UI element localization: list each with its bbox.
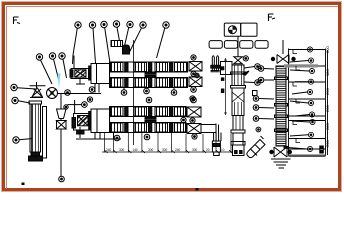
floor line 7 — [289, 138, 326, 140]
frame balloon 7 — [295, 112, 315, 117]
upper shaft row B coupling X-box — [189, 77, 202, 87]
balloon above coupling A — [191, 55, 196, 60]
small stand part left of middle bottom — [212, 133, 221, 156]
frame balloon 9 — [290, 132, 314, 137]
svg-text:20: 20 — [206, 148, 210, 152]
lower unit legs and base — [76, 127, 121, 139]
upper unit legs — [76, 79, 101, 94]
balloon under lower unit b — [144, 134, 150, 140]
main red-brown frame — [4, 4, 340, 190]
balloon bottom left — [59, 176, 65, 182]
legend rounded box 4 — [255, 41, 268, 49]
floor line 3 — [289, 81, 326, 83]
balloon under upper unit f — [171, 88, 177, 95]
middle column body upper — [231, 65, 246, 86]
balloon lower unit mid b — [190, 118, 195, 123]
svg-text:300: 300 — [148, 148, 154, 152]
balloon hatched column c — [253, 96, 274, 102]
top valve X — [234, 37, 249, 64]
balloon hatched column d — [253, 105, 274, 111]
bottom-left frame dot — [22, 183, 24, 185]
dimension extension lines below machine — [105, 133, 232, 153]
balloons right of middle column — [244, 64, 260, 70]
balloon 3 top row — [101, 21, 110, 63]
middle bottom part body — [231, 133, 245, 156]
upper center joint bars — [145, 73, 156, 78]
dark motor blob above machine — [123, 45, 130, 54]
middle column lower stem — [233, 116, 243, 131]
top bowtie valve on hatched column — [271, 40, 295, 64]
frame balloon 6 — [290, 100, 314, 105]
trestle mast — [30, 82, 46, 98]
svg-text:240: 240 — [106, 148, 112, 152]
diagonal roller bottom middle — [247, 136, 265, 158]
upper gearbox — [70, 56, 89, 79]
frame outline — [289, 49, 328, 157]
inner bevel line top-left — [7, 7, 339, 190]
balloon lower unit top — [190, 96, 195, 101]
svg-text:200: 200 — [325, 88, 330, 95]
svg-text:300: 300 — [162, 148, 168, 152]
small box upper-left of balloons — [253, 91, 258, 96]
section arrow symbol top-right — [269, 14, 276, 21]
cyan guide strip — [58, 74, 61, 90]
lower shaft row A coupling X-box — [187, 107, 201, 117]
dimension line — [102, 150, 232, 153]
middle column dim line — [224, 58, 227, 115]
lower shaft row A rollers — [110, 107, 187, 117]
svg-text:240: 240 — [175, 148, 181, 152]
funnel and valve line — [57, 94, 67, 177]
dimension texts — [106, 148, 225, 152]
small element right of bottom balloon — [320, 146, 324, 153]
balloon left a — [36, 54, 52, 84]
hatched column body — [275, 66, 288, 146]
balloon 4 top row — [113, 21, 119, 41]
balloon above roller — [256, 127, 261, 132]
floor line 8 — [289, 148, 326, 150]
svg-text:200: 200 — [325, 105, 330, 112]
frame balloon 4 — [295, 79, 314, 84]
frame balloon 10 — [288, 146, 313, 151]
balloon above lower coupling — [191, 97, 197, 103]
svg-text:300: 300 — [119, 148, 125, 152]
frame balloons with leaders — [298, 47, 313, 52]
frame balloon 5 — [292, 89, 313, 94]
floor line 5 — [289, 115, 326, 117]
upper shaft row A coupling X-box — [189, 62, 202, 72]
svg-text:180: 180 — [325, 69, 330, 76]
frame bottom — [289, 155, 326, 158]
balloon under upper unit c — [121, 88, 127, 95]
balloon under upper unit d — [144, 88, 150, 94]
balloon left b — [49, 53, 58, 79]
upper shaft row B rollers — [110, 78, 188, 88]
grey band — [284, 64, 318, 67]
small stand below legend — [211, 56, 221, 72]
outer border light bevel — [2, 2, 342, 192]
balloon 5 top row — [125, 21, 134, 46]
balloon 2 top row — [89, 22, 95, 63]
small hatched part above machine — [111, 41, 123, 47]
balloon below coupling B — [191, 87, 197, 93]
bottom-center tick — [196, 189, 198, 191]
svg-text:200: 200 — [325, 140, 330, 147]
legend rounded box 3 — [240, 41, 253, 49]
balloon left column bottom — [13, 137, 33, 143]
frame balloon 8 — [292, 119, 315, 124]
pulley wheel — [47, 88, 100, 99]
balloon left c — [59, 53, 67, 78]
balloon hatched column b — [258, 77, 274, 83]
balloon below lower coupling — [192, 134, 197, 139]
lower main housing — [89, 109, 110, 133]
upper shaft row A rollers — [110, 62, 188, 72]
balloon above lower gearbox — [87, 97, 92, 102]
first-angle projection symbol top-left — [14, 17, 21, 24]
lower shaft row B rollers — [110, 123, 187, 133]
hooks on floors — [293, 50, 300, 143]
floor line 6 — [289, 120, 326, 122]
right dimension texts — [325, 46, 330, 147]
balloon under upper unit b — [89, 87, 95, 93]
narrow bar beside column — [43, 107, 47, 159]
balloon far left — [11, 84, 36, 90]
frame balloon 3 — [290, 68, 315, 73]
lower row B extension shaft — [201, 124, 219, 134]
frame balloon 2 — [290, 58, 314, 63]
balloon hatched column e — [253, 116, 274, 122]
centerline upper — [133, 40, 135, 145]
balloons left of hatched column — [258, 66, 274, 72]
balloon 7 top row — [157, 22, 170, 58]
balloons under upper unit — [65, 90, 71, 96]
balloon between couplings — [191, 71, 196, 76]
legend square box empty — [241, 23, 257, 36]
lower shaft row B coupling X-box — [187, 124, 201, 134]
balloon left column top — [12, 97, 30, 103]
balloon 6 top row — [130, 22, 147, 52]
lower gearbox — [72, 100, 91, 134]
balloon 1 top row — [73, 22, 82, 64]
legend rounded box 1 — [209, 41, 222, 49]
balloon under lower unit left — [68, 102, 88, 108]
balloons under lower unit — [114, 135, 120, 141]
balloon middle column b — [244, 80, 260, 86]
svg-text:200: 200 — [325, 46, 330, 53]
dark mark at coupling — [195, 73, 199, 77]
svg-text:300: 300 — [192, 148, 198, 152]
floor line 4 — [289, 98, 326, 100]
flange circle on leader — [64, 105, 68, 109]
balloon lower unit mid a — [181, 117, 186, 122]
svg-text:140: 140 — [133, 148, 139, 152]
floor line 2 — [289, 65, 326, 67]
balloon under upper unit e — [146, 97, 152, 103]
middle bottom flange — [231, 130, 245, 133]
upper main housing — [89, 64, 110, 84]
bottom valve X on hatched column — [270, 147, 292, 157]
legend rounded box 2 — [224, 41, 237, 49]
ground hatch below column — [271, 159, 291, 168]
svg-text:280: 280 — [325, 123, 330, 130]
left tall column — [29, 101, 43, 161]
middle column body lower with cross brace — [231, 86, 246, 116]
lower center joint bars — [145, 118, 156, 123]
arrow marker on column — [242, 71, 249, 75]
legend square box with symbol — [224, 23, 240, 36]
leader mark bottom left of frame — [284, 147, 289, 149]
left bracket of middle column — [221, 62, 233, 93]
